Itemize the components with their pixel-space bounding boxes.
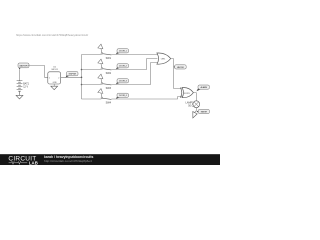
svg-text:GND: GND (53, 82, 58, 84)
svg-text:ANYDR: ANYDR (177, 66, 184, 69)
wire bus to switch SW1 (82, 54, 102, 56)
wire SW2 to OR1 input 2 (111, 59, 157, 70)
svg-text:DOOR_4: DOOR_4 (119, 95, 128, 97)
svg-text:LAB: LAB (29, 161, 38, 165)
svg-text:SW1: SW1 (106, 57, 112, 60)
svg-text:EARTH: EARTH (201, 110, 208, 113)
wire OR1 output down to XOR1 input 1 (171, 59, 183, 89)
junction dots on bus (81, 69, 83, 86)
switch SW3 (98, 74, 112, 90)
wire SW3 to OR1 input 3 (111, 63, 157, 85)
node flag ALARM (197, 85, 210, 91)
wire battery top to flag (19, 69, 21, 80)
svg-text:ALARM: ALARM (201, 86, 208, 89)
node flag DOOR_2 (116, 64, 129, 70)
svg-text:12 V: 12 V (23, 86, 28, 89)
node flag DOOR_3 (116, 79, 129, 85)
svg-text:SW4: SW4 (106, 101, 112, 104)
svg-text:XOR1: XOR1 (184, 93, 191, 95)
svg-text:DOOR_1: DOOR_1 (119, 51, 128, 53)
vertical bus wire feeding switches (81, 55, 83, 100)
IC U1 (48, 67, 61, 85)
U1 bottom pin wire (53, 84, 55, 86)
battery BAT1 12V (17, 80, 30, 94)
node flag DOOR_4 (116, 93, 129, 99)
svg-text:https://www.circuitlab.com/cir: https://www.circuitlab.com/circuit/c47b9… (16, 33, 88, 37)
svg-text:SWPWR: SWPWR (69, 74, 77, 76)
wire flag to U1 left pin (28, 66, 48, 78)
wire SW1 to OR1 input 1 (111, 54, 157, 56)
svg-text:DOOR_3: DOOR_3 (119, 81, 128, 83)
XOR gate XOR1 (180, 88, 193, 98)
CircuitLab logo (8, 155, 38, 165)
svg-text:BATPWR: BATPWR (20, 64, 28, 67)
wire bus to switch SW4 (82, 98, 102, 100)
wire XOR1 output to lamp (193, 93, 196, 101)
ground below battery (16, 94, 23, 99)
switch SW1 (98, 44, 112, 60)
switch SW2 (98, 59, 112, 75)
ground below U1 (51, 86, 58, 90)
wire bus to switch SW2 (82, 69, 102, 71)
node flag EARTH (196, 109, 209, 113)
footer bar (0, 154, 220, 165)
svg-text:DOOR_2: DOOR_2 (119, 66, 128, 68)
wire U1 right pin to switch bus (61, 76, 82, 78)
wire SW4 to XOR1 lower input (111, 97, 182, 99)
node flag DOOR_1 (116, 49, 129, 55)
svg-text:50 Ω: 50 Ω (188, 105, 193, 108)
svg-text:http://circuitlab.com/c47b9kq8: http://circuitlab.com/c47b9kq8p6e4 (44, 159, 92, 163)
svg-text:2: 2 (58, 77, 59, 79)
lamp LAMP1 (186, 101, 200, 108)
svg-text:1: 1 (49, 77, 50, 79)
node flag ANYDR (174, 65, 187, 69)
wire bus to switch SW3 (82, 84, 102, 86)
svg-text:OR1: OR1 (161, 58, 166, 60)
wire lamp to ground (195, 108, 197, 113)
svg-text:MCU1: MCU1 (52, 69, 59, 71)
switch SW4 (98, 88, 112, 104)
node flag SWPWR (66, 72, 78, 78)
ground below lamp (rotated) (191, 112, 197, 119)
svg-text:SW3: SW3 (106, 87, 112, 90)
node flag BATPWR (18, 63, 29, 69)
OR gate OR1 (157, 53, 171, 64)
svg-text:SW2: SW2 (106, 72, 112, 75)
